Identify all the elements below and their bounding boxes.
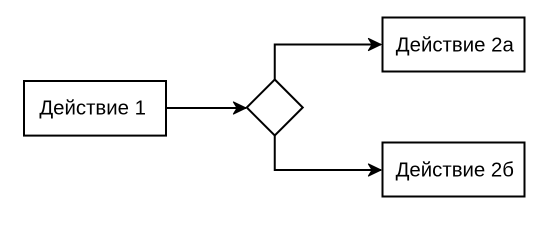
svg-text:Действие 2б: Действие 2б	[396, 160, 514, 182]
svg-text:Действие 2а: Действие 2а	[396, 35, 515, 57]
svg-text:Действие 1: Действие 1	[39, 98, 146, 120]
